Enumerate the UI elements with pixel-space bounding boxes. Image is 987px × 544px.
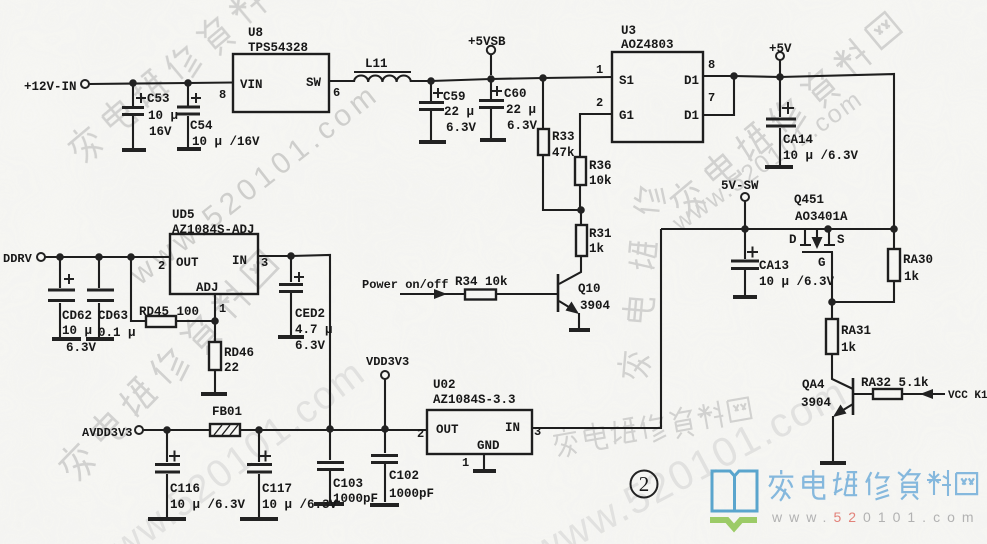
svg-text:2: 2: [417, 427, 424, 441]
svg-text:6.3V: 6.3V: [295, 339, 326, 353]
svg-text:C53: C53: [147, 92, 170, 106]
svg-text:1k: 1k: [841, 341, 857, 355]
svg-text:2: 2: [596, 96, 603, 110]
svg-text:4.7 μ: 4.7 μ: [295, 323, 333, 337]
svg-text:Power on/off: Power on/off: [362, 278, 448, 292]
svg-text:10 μ: 10 μ: [62, 324, 92, 338]
svg-text:C59: C59: [443, 90, 466, 104]
svg-text:FB01: FB01: [212, 405, 242, 419]
svg-text:C103: C103: [333, 477, 363, 491]
svg-text:1k: 1k: [904, 270, 920, 284]
svg-text:IN: IN: [505, 421, 520, 435]
svg-text:RD46: RD46: [224, 346, 254, 360]
svg-text:D1: D1: [684, 109, 699, 123]
svg-text:CD63: CD63: [98, 309, 128, 323]
svg-text:R33: R33: [552, 130, 575, 144]
svg-text:8: 8: [708, 58, 715, 72]
svg-text:6.3V: 6.3V: [446, 121, 477, 135]
svg-text:22: 22: [224, 361, 239, 375]
svg-text:OUT: OUT: [436, 423, 459, 437]
svg-text:R36: R36: [589, 159, 612, 173]
svg-text:GND: GND: [477, 439, 500, 453]
svg-text:C54: C54: [190, 119, 213, 133]
svg-text:OUT: OUT: [176, 256, 199, 270]
svg-text:G: G: [818, 256, 826, 270]
svg-text:L11: L11: [365, 57, 388, 71]
svg-text:10 μ /6.3V: 10 μ /6.3V: [170, 498, 246, 512]
svg-text:C60: C60: [504, 87, 527, 101]
svg-text:Q10: Q10: [578, 282, 601, 296]
svg-text:10k: 10k: [589, 174, 612, 188]
svg-text:S1: S1: [619, 74, 634, 88]
svg-text:CA14: CA14: [783, 133, 814, 147]
svg-text:VIN: VIN: [240, 78, 263, 92]
svg-text:AO3401A: AO3401A: [795, 210, 848, 224]
svg-text:U8: U8: [248, 26, 263, 40]
svg-text:CED2: CED2: [295, 307, 325, 321]
svg-text:7: 7: [708, 91, 715, 105]
svg-text:+5V: +5V: [769, 42, 792, 56]
svg-text:SW: SW: [306, 76, 322, 90]
svg-text:R34 10k: R34 10k: [455, 275, 508, 289]
svg-text:D: D: [789, 233, 797, 247]
svg-text:RD45 100: RD45 100: [139, 305, 199, 319]
svg-text:C116: C116: [170, 482, 200, 496]
svg-text:3: 3: [261, 256, 268, 270]
svg-text:10 μ: 10 μ: [148, 109, 178, 123]
svg-text:VCC K1: VCC K1: [948, 390, 987, 402]
svg-text:6.3V: 6.3V: [66, 341, 97, 355]
svg-text:1000pF: 1000pF: [389, 487, 434, 501]
svg-text:16V: 16V: [149, 125, 172, 139]
svg-text:3904: 3904: [580, 299, 611, 313]
svg-text:10 μ /16V: 10 μ /16V: [192, 135, 260, 149]
svg-text:1000pF: 1000pF: [333, 492, 378, 506]
svg-text:CD62: CD62: [62, 309, 92, 323]
svg-text:D1: D1: [684, 74, 699, 88]
svg-text:3904: 3904: [801, 396, 832, 410]
svg-text:0.1 μ: 0.1 μ: [98, 326, 136, 340]
svg-text:22 μ: 22 μ: [506, 103, 536, 117]
svg-text:22 μ: 22 μ: [444, 105, 474, 119]
svg-text:R31: R31: [589, 227, 612, 241]
svg-text:AZ1084S-3.3: AZ1084S-3.3: [433, 393, 516, 407]
svg-text:2: 2: [158, 259, 165, 273]
svg-text:8: 8: [219, 88, 226, 102]
svg-text:U3: U3: [621, 24, 636, 38]
svg-text:IN: IN: [232, 254, 247, 268]
svg-text:6: 6: [333, 86, 340, 100]
svg-text:10 μ /6.3V: 10 μ /6.3V: [262, 498, 338, 512]
svg-text:1k: 1k: [589, 242, 605, 256]
svg-text:+12V-IN: +12V-IN: [24, 80, 77, 94]
svg-text:AOZ4803: AOZ4803: [621, 38, 674, 52]
svg-text:AVDD3V3: AVDD3V3: [82, 426, 132, 440]
svg-text:1: 1: [596, 63, 603, 77]
svg-text:www.520101.com: www.520101.com: [771, 509, 981, 525]
svg-text:RA31: RA31: [841, 324, 871, 338]
svg-text:10 μ /6.3V: 10 μ /6.3V: [759, 275, 835, 289]
svg-text:3: 3: [534, 425, 541, 439]
svg-text:RA32 5.1k: RA32 5.1k: [861, 376, 929, 390]
svg-text:G1: G1: [619, 109, 634, 123]
svg-text:UD5: UD5: [172, 208, 195, 222]
svg-text:ADJ: ADJ: [196, 281, 219, 295]
svg-text:1: 1: [219, 302, 226, 316]
svg-text:RA30: RA30: [903, 253, 933, 267]
svg-text:U02: U02: [433, 378, 456, 392]
svg-text:DDRV: DDRV: [3, 252, 33, 266]
svg-text:47k: 47k: [552, 146, 575, 160]
svg-text:C117: C117: [262, 482, 292, 496]
svg-text:S: S: [837, 233, 845, 247]
svg-text:5V-SW: 5V-SW: [721, 179, 759, 193]
svg-text:+5VSB: +5VSB: [468, 35, 506, 49]
svg-text:1: 1: [462, 456, 469, 470]
svg-text:TPS54328: TPS54328: [248, 41, 308, 55]
svg-text:2: 2: [639, 472, 650, 496]
svg-text:CA13: CA13: [759, 259, 789, 273]
svg-text:QA4: QA4: [802, 378, 825, 392]
svg-text:10 μ /6.3V: 10 μ /6.3V: [783, 149, 859, 163]
svg-text:AZ1084S-ADJ: AZ1084S-ADJ: [172, 223, 255, 237]
svg-text:Q451: Q451: [794, 193, 824, 207]
svg-text:VDD3V3: VDD3V3: [366, 355, 409, 369]
svg-text:6.3V: 6.3V: [507, 119, 538, 133]
svg-text:C102: C102: [389, 469, 419, 483]
